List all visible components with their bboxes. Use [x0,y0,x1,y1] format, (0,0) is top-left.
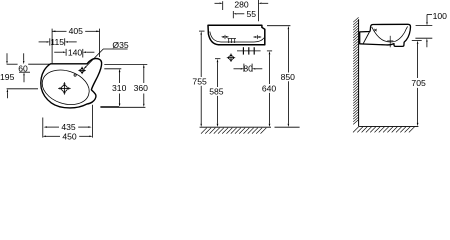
front view: inner basin line [210,32,264,43]
side view: basin profile outline [360,24,411,46]
leader line to tap hole [84,49,128,69]
svg-text:55: 55 [247,9,257,19]
front view: floor line [200,126,271,128]
dim 195: lower reference line at drain level [7,88,38,90]
dim 100: extension lines [416,25,433,27]
svg-text:140: 140 [68,47,83,57]
side view: wall hatching [353,17,358,124]
svg-text:405: 405 [69,26,84,36]
dim 850: line and arrows [288,26,290,29]
front view: body outline [208,25,265,45]
tap hole crosshair [78,67,85,74]
svg-text:850: 850 [281,72,296,82]
svg-text:705: 705 [411,78,426,88]
dim 435/450: extension lines [42,118,44,138]
svg-text:100: 100 [433,11,448,21]
overflow hole [74,74,76,76]
dim 310: line and arrows [119,72,121,83]
dim 310/360: bottom extension lines [100,106,119,108]
water supply crosshair [227,54,235,62]
dim 705: line and arrows [417,41,419,44]
side view: bracket diagonal [363,32,369,43]
dim 405: dimension line and arrows [52,30,66,32]
tap position double arrow right [254,36,261,38]
svg-text:60: 60 [18,64,28,74]
dim 310/360: top extension lines [104,63,147,65]
dim 705: top extension line [412,39,422,41]
front view: floor hatching [201,128,266,134]
dim 115: arrows outside [39,41,47,43]
side view: drain axis line [389,36,391,48]
dim 80: arrows outside [234,68,241,70]
svg-text:360: 360 [134,83,149,93]
svg-text:80: 80 [243,64,253,74]
dim 850: top extension line [267,25,290,27]
dim 100: leader and arrows [427,14,432,16]
tap position double arrow left [222,36,228,38]
drain hole crosshair [58,82,70,94]
dim 755: top tick [199,30,205,32]
svg-text:Ø35: Ø35 [112,40,128,50]
dim 360: line and arrows [143,68,145,84]
dim 60: lower reference line [19,71,30,73]
dim 140: arrows outside [54,51,62,53]
svg-text:115: 115 [50,37,64,47]
tap hole comb marks [228,38,236,40]
dim 55: tick and arrow [232,11,234,18]
dim 115: extension lines [49,38,51,45]
svg-text:640: 640 [262,83,277,93]
dim 195: arrows [6,53,8,60]
dim 280: extension lines [222,1,224,10]
dim 60: reference line at basin top edge level [7,63,18,65]
dim 280: arrows outside [215,2,220,4]
dim 80: extension lines [243,64,245,72]
dim 640: line and arrows [269,51,271,54]
waste outlet marks [237,50,261,52]
dim 435: line and arrows [46,126,59,128]
svg-text:310: 310 [112,83,127,93]
svg-text:195: 195 [0,72,15,82]
side view: overflow x-mark [374,29,376,31]
side view: bowl interior line [372,26,408,42]
svg-text:585: 585 [209,87,224,97]
dim 585: line and arrows [217,59,219,62]
dim 405: extension lines [51,29,53,64]
dim 585: top tick [215,58,220,60]
side view: floor hatching [353,127,415,133]
side view: floor line [359,125,419,127]
dim 755: line and arrows [200,31,202,34]
dim 450: line and arrows [46,135,60,137]
plan view: basin outline [41,58,102,107]
dim 640: top tick [267,50,272,52]
svg-text:450: 450 [62,131,77,141]
plan view: inner basin rim (ellipse) [38,64,94,110]
dim 140: extension lines [65,49,67,56]
svg-text:755: 755 [192,76,207,86]
side view: wall line [358,19,360,126]
dim 60: arrows [23,53,25,60]
